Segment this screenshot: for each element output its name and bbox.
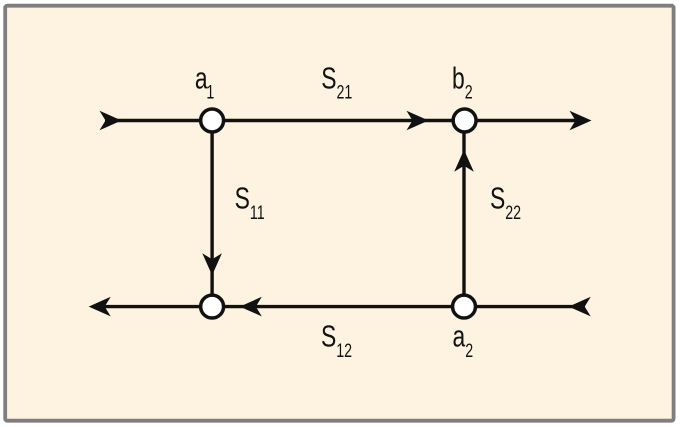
arrowhead outgoing top-right xyxy=(570,111,592,131)
arrowhead outgoing bottom-left xyxy=(89,297,111,317)
node b2 xyxy=(453,109,476,132)
wire: right vertical a2 -> b2 (S22) xyxy=(462,121,465,307)
arrowhead incoming top-left xyxy=(100,111,122,131)
wire: top branch a1 -> b2 (S21) xyxy=(105,119,576,122)
arrowhead down on S11 branch xyxy=(202,253,222,275)
arrowhead mid bottom after a2 xyxy=(240,297,262,317)
arrowhead mid top before b2 xyxy=(407,111,429,131)
node a1 xyxy=(201,109,224,132)
wire: bottom branch a2 -> node (S12) xyxy=(104,305,585,308)
node b1 (bottom-left) xyxy=(201,295,224,318)
arrowhead incoming bottom-right xyxy=(569,297,591,317)
arrowhead up on S22 branch xyxy=(454,150,474,172)
node a2 xyxy=(453,295,476,318)
wire: left vertical a1 -> node (S11) xyxy=(210,121,213,307)
